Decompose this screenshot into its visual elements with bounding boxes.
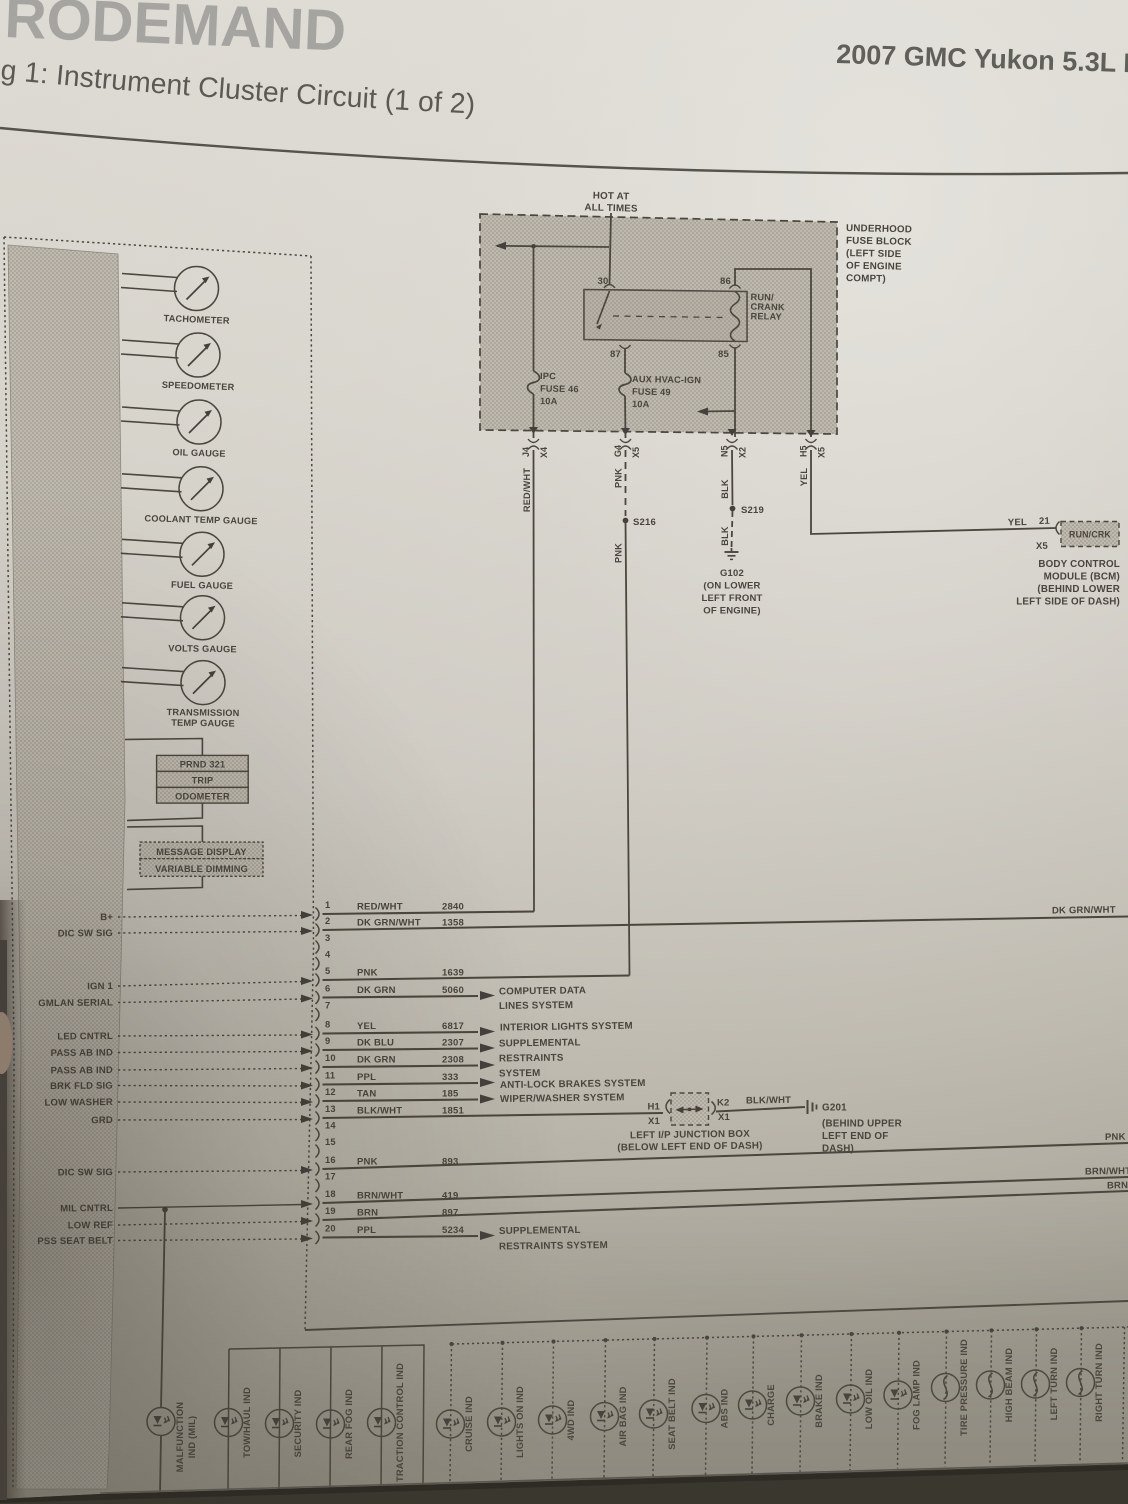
wire below AUX fuse — [624, 396, 627, 438]
cluster pin 16 wire PNK 893 — [316, 1143, 1128, 1176]
label BODY CONTROL MODULE (BCM) — [1016, 559, 1120, 608]
low oil ind lamp — [837, 1332, 875, 1470]
cluster pin 1 wire RED/WHT 2840 — [316, 900, 535, 921]
label UNDERHOOD FUSE BLOCK (LEFT SIDE OF ENGINE COMPT) — [846, 223, 912, 285]
cluster pin 20 wire PPL 5234 — [316, 1224, 496, 1245]
cluster pin 9 wire DK BLU 2307 — [316, 1036, 496, 1057]
connector J4/X4 — [521, 439, 549, 458]
high beam ind lamp — [977, 1328, 1015, 1465]
traction control ind lamp — [368, 1346, 406, 1489]
cluster pin 6 wire DK GRN 5060 — [316, 984, 496, 1005]
page bottom edge line — [100, 1463, 1128, 1493]
wire: relay 85 down — [734, 348, 736, 437]
connector H5/X5 — [799, 439, 827, 458]
run/crank relay U1 (box) — [584, 290, 747, 342]
cluster pin 7 — [316, 1001, 331, 1022]
IPC fuse F46 — [528, 371, 579, 406]
cruise ind lamp — [437, 1342, 475, 1484]
cluster pin 17 — [316, 1172, 336, 1193]
wire: drop to IPC fuse — [533, 246, 535, 371]
air bag ind lamp — [591, 1338, 629, 1479]
relay pin 87 arc — [610, 345, 630, 360]
cluster pin 8 wire YEL 6817 — [316, 1020, 496, 1041]
wire BLK/WHT junction box to G201 — [716, 1095, 805, 1112]
signal label PASS AB IND (to pin 10) — [51, 1064, 313, 1077]
relay actuator dashes — [613, 316, 728, 318]
wire PNK dashed above splice — [614, 450, 626, 516]
signal label GRD (to pin 13) — [91, 1115, 313, 1126]
right turn ind lamp — [1067, 1326, 1105, 1462]
wire below IPC fuse — [533, 394, 535, 438]
cluster pin 10 wire DK GRN 2308 — [316, 1053, 496, 1074]
cluster pin 4 — [316, 950, 332, 971]
speedometer — [121, 333, 235, 392]
signal label LED CNTRL (to pin 8) — [57, 1031, 313, 1043]
BCM RUN/CRK box — [1061, 522, 1119, 547]
wire PNK below splice — [614, 521, 630, 976]
cluster pin 18 wire BRN/WHT 419 — [316, 1177, 1128, 1210]
seat belt ind lamp — [640, 1337, 678, 1477]
signal label DIC SW SIG (to pin 16) — [58, 1166, 313, 1178]
AUX HVAC-IGN fuse F49 — [619, 348, 701, 409]
malfunction indicator lamp (MIL) — [147, 1402, 197, 1495]
coolant temp gauge — [121, 467, 258, 526]
lights on ind lamp — [488, 1341, 526, 1483]
wire BLK upper — [720, 450, 733, 505]
relay pin 86 arc — [720, 276, 740, 289]
BCM connector arc — [1056, 522, 1060, 535]
wire: hot feed into relay pin 30 — [610, 213, 612, 284]
cluster connector strip (halftone) — [8, 245, 125, 1489]
connector N5/X2 — [720, 439, 748, 458]
cluster pin 11 wire PPL 333 — [316, 1071, 496, 1092]
tire pressure ind lamp — [932, 1330, 970, 1467]
signal label PSS SEAT BELT (to pin 20) — [37, 1235, 313, 1248]
wire: aux feed arrow inside fuse block — [697, 408, 735, 416]
signal label GMLAN SERIAL (to pin 6) — [38, 995, 313, 1010]
label SUPPLEMENTAL RESTRAINTS SYSTEM (pin 20) — [499, 1225, 608, 1253]
relay pin 85 arc — [718, 345, 740, 361]
signal label IGN 1 (to pin 5) — [87, 977, 313, 992]
page title: Fig 1 Instrument Cluster Circuit — [0, 79, 1128, 126]
cluster pin 19 wire BRN 897 — [316, 1191, 1128, 1227]
junction on MIL CNTRL leader — [162, 1207, 168, 1213]
signal label LOW WASHER (to pin 12) — [44, 1097, 313, 1109]
wire: fuse block feed to IPC fuse (left arrow) — [495, 242, 609, 250]
relay coil — [731, 292, 740, 342]
wire cluster to indicator feed (long) — [305, 1301, 1128, 1330]
cluster pin 14 — [316, 1121, 337, 1142]
label SUPPLEMENTAL RESTRAINTS SYSTEM (pins 9-10) — [499, 1037, 581, 1079]
connector G4/X5 — [613, 439, 641, 458]
signal label LOW REF (to pin 19) — [68, 1217, 313, 1231]
charge lamp — [739, 1334, 777, 1473]
instrument cluster box (dash-dot border) — [4, 237, 314, 1489]
label G201 (BEHIND UPPER LEFT END OF DASH) — [822, 1103, 902, 1155]
wire strip to PRND/odometer chain — [125, 739, 202, 756]
label RUN/CRANK RELAY — [750, 292, 785, 322]
MESSAGE DISPLAY / VARIABLE DIMMING box — [140, 842, 263, 876]
tow/haul indicator group box — [228, 1345, 424, 1489]
4wd ind lamp — [539, 1339, 577, 1480]
wire: relay 86 up and over to right drop — [735, 269, 811, 437]
cluster pin 15 — [316, 1137, 336, 1158]
signal label MIL CNTRL (to pin 18) — [60, 1200, 313, 1214]
volts gauge — [121, 596, 237, 655]
indicator group box right edge — [1123, 1327, 1125, 1462]
left turn ind lamp — [1022, 1327, 1060, 1463]
wire odometer box loop — [127, 803, 202, 820]
cluster pin 13 wire BLK/WHT 1851 — [316, 1104, 664, 1125]
wire YEL (H5 down, over to BCM) — [799, 450, 1056, 534]
oil gauge — [121, 400, 226, 459]
abs ind lamp — [692, 1336, 730, 1476]
wire strip to message display — [127, 826, 202, 842]
signal label PASS AB IND (to pin 9) — [51, 1047, 313, 1059]
ground G201 — [808, 1100, 817, 1114]
signal label BRK FLD SIG (to pin 11) — [50, 1081, 313, 1093]
label G102 (ON LOWER LEFT FRONT OF ENGINE) — [701, 568, 762, 617]
header rule — [0, 128, 1128, 174]
cluster pin 3 — [316, 933, 331, 954]
wire RED/WHT vertical (J4 to cluster pin 1) — [522, 450, 534, 912]
relay pin 30 arc — [598, 276, 615, 288]
signal label B+ (to pin 1) — [100, 911, 313, 923]
brake ind lamp — [787, 1333, 825, 1472]
label COMPUTER DATA LINES SYSTEM — [499, 985, 586, 1012]
cluster pin 2 wire DK GRN/WHT 1358 — [316, 916, 1128, 937]
relay switch blade — [596, 291, 610, 330]
cluster pin 12 wire TAN 185 — [316, 1087, 496, 1108]
underhood fuse block (dashed box, halftone) — [480, 214, 837, 434]
indicator group dotted box top edge — [452, 1327, 1128, 1344]
label YEL / 21 / X5 at BCM — [1008, 516, 1051, 552]
wire BLK lower (to G102) — [720, 511, 733, 548]
fog lamp ind lamp — [884, 1331, 922, 1469]
rear fog ind lamp — [317, 1347, 355, 1489]
label HOT AT ALL TIMES — [584, 191, 638, 215]
ground G102 — [725, 548, 739, 559]
fuel gauge — [121, 532, 233, 591]
security ind lamp — [266, 1348, 304, 1489]
junction box connector arc H1/X1 — [647, 1100, 670, 1128]
splice S216 — [623, 517, 656, 528]
PRND 321 / TRIP / ODOMETER display box — [157, 755, 249, 803]
wire message display loop — [127, 876, 202, 889]
cluster pin 5 wire PNK 1639 — [316, 966, 630, 987]
tachometer — [121, 267, 230, 326]
wire to MIL lamp — [161, 1210, 165, 1409]
junction box connector arc K2/X1 — [712, 1098, 731, 1124]
splice S219 — [730, 505, 764, 516]
left I/P junction box (dashed, halftone) — [671, 1093, 709, 1125]
transmission temp gauge — [121, 661, 240, 729]
tow/haul ind lamp — [215, 1387, 253, 1458]
signal label DIC SW SIG (to pin 2) — [58, 927, 313, 939]
label LEFT I/P JUNCTION BOX (BELOW LEFT END OF DASH) — [617, 1129, 762, 1154]
